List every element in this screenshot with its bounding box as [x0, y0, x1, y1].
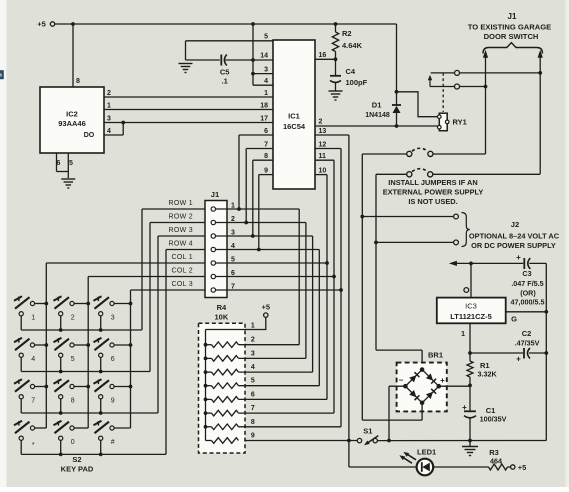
svg-text:8: 8 [251, 419, 255, 426]
svg-text:3.32K: 3.32K [478, 370, 498, 379]
svg-text:16: 16 [319, 52, 327, 59]
svg-text:.1: .1 [222, 77, 228, 86]
svg-text:–: – [399, 376, 404, 385]
svg-text:3: 3 [111, 315, 115, 322]
svg-text:47,000/5.5: 47,000/5.5 [511, 297, 545, 306]
svg-text:5: 5 [264, 34, 268, 41]
svg-text:(OR): (OR) [520, 288, 536, 297]
svg-text:7: 7 [264, 142, 268, 149]
svg-text:+5: +5 [518, 463, 527, 472]
svg-text:6: 6 [251, 391, 255, 398]
svg-text:9: 9 [251, 433, 255, 440]
svg-text:6: 6 [264, 128, 268, 135]
svg-text:EXTERNAL POWER SUPPLY: EXTERNAL POWER SUPPLY [383, 188, 484, 197]
svg-text:1: 1 [251, 323, 255, 330]
svg-text:2: 2 [251, 337, 255, 344]
svg-text:IS NOT USED.: IS NOT USED. [408, 197, 457, 206]
svg-text:4: 4 [251, 364, 255, 371]
svg-text:2: 2 [107, 90, 111, 97]
svg-text:R2: R2 [342, 29, 352, 38]
svg-text:13: 13 [319, 128, 327, 135]
svg-text:ROW 2: ROW 2 [169, 213, 193, 220]
svg-text:*: * [32, 442, 35, 449]
svg-text:3: 3 [107, 116, 111, 123]
svg-text:C4: C4 [346, 67, 356, 76]
svg-text:J1: J1 [211, 190, 220, 199]
svg-text:KEY PAD: KEY PAD [61, 465, 94, 474]
svg-text:+5: +5 [37, 20, 46, 29]
svg-text:93AA46: 93AA46 [58, 119, 86, 128]
svg-text:+: + [516, 355, 521, 364]
svg-text:OR DC POWER SUPPLY: OR DC POWER SUPPLY [471, 241, 556, 250]
svg-text:C3: C3 [522, 269, 531, 278]
svg-text:8: 8 [71, 398, 75, 405]
svg-text:RY1: RY1 [453, 118, 467, 127]
svg-text:10: 10 [319, 168, 327, 175]
svg-text:4.64K: 4.64K [342, 41, 363, 50]
svg-text:9: 9 [264, 168, 268, 175]
svg-text:1: 1 [264, 90, 268, 97]
svg-text:+5: +5 [262, 303, 271, 312]
svg-text:J2: J2 [511, 220, 519, 229]
svg-text:COL 1: COL 1 [172, 254, 193, 261]
svg-text:DOOR SWITCH: DOOR SWITCH [484, 32, 539, 41]
svg-text:ROW 4: ROW 4 [169, 240, 193, 247]
svg-text:3: 3 [264, 67, 268, 74]
svg-text:100/35V: 100/35V [480, 415, 507, 424]
svg-text:2: 2 [319, 119, 323, 126]
svg-text:S2: S2 [72, 455, 81, 464]
svg-text:7: 7 [251, 405, 255, 412]
svg-text:6: 6 [57, 160, 61, 167]
svg-text:14: 14 [260, 53, 268, 60]
svg-text:0: 0 [71, 439, 75, 446]
svg-text:6: 6 [111, 356, 115, 363]
svg-text:3: 3 [251, 350, 255, 357]
svg-text:C2: C2 [522, 329, 532, 338]
svg-text:D1: D1 [372, 101, 382, 110]
svg-text:464: 464 [490, 456, 502, 465]
svg-text:.047 F/5.5: .047 F/5.5 [511, 279, 543, 288]
svg-text:9: 9 [111, 398, 115, 405]
svg-text:5: 5 [251, 378, 255, 385]
svg-text:1: 1 [107, 103, 111, 110]
svg-text:100pF: 100pF [346, 78, 368, 87]
svg-text:+: + [440, 376, 445, 385]
svg-text:#: # [111, 439, 115, 446]
svg-text:4: 4 [31, 356, 35, 363]
svg-text:16C54: 16C54 [283, 122, 306, 131]
svg-text:11: 11 [319, 153, 327, 160]
svg-text:LED1: LED1 [417, 448, 436, 457]
svg-text:IC1: IC1 [288, 112, 300, 121]
svg-text:S1: S1 [363, 427, 372, 436]
svg-text:ROW 1: ROW 1 [169, 200, 193, 207]
svg-text:IC3: IC3 [465, 302, 477, 311]
svg-text:TO EXISTING GARAGE: TO EXISTING GARAGE [468, 23, 551, 32]
svg-text:2: 2 [71, 315, 75, 322]
svg-text:7: 7 [31, 398, 35, 405]
svg-text:10K: 10K [215, 313, 229, 322]
svg-text:5: 5 [71, 356, 75, 363]
svg-text:5: 5 [69, 160, 73, 167]
svg-text:1: 1 [31, 315, 35, 322]
svg-text:18: 18 [260, 103, 268, 110]
svg-text:LT1121CZ-5: LT1121CZ-5 [450, 312, 492, 321]
svg-text:BR1: BR1 [428, 351, 443, 360]
svg-text:OPTIONAL 8–24 VOLT AC: OPTIONAL 8–24 VOLT AC [469, 232, 560, 241]
svg-text:8: 8 [264, 153, 268, 160]
svg-text:1: 1 [461, 331, 465, 338]
svg-text:R4: R4 [217, 303, 227, 312]
svg-text:17: 17 [260, 116, 268, 123]
svg-text:DO: DO [84, 132, 95, 139]
svg-text:J1: J1 [508, 12, 517, 21]
svg-text:+: + [462, 403, 467, 412]
svg-text:G: G [511, 315, 517, 324]
svg-text:.47/35V: .47/35V [515, 339, 540, 348]
svg-text:4: 4 [264, 78, 268, 85]
svg-text:C5: C5 [220, 68, 230, 77]
svg-text:+: + [516, 253, 521, 262]
svg-text:IC2: IC2 [66, 110, 78, 119]
svg-text:8: 8 [76, 78, 80, 85]
svg-text:1N4148: 1N4148 [365, 112, 390, 119]
svg-text:ROW 3: ROW 3 [169, 227, 193, 234]
svg-text:COL 3: COL 3 [172, 281, 193, 288]
svg-text:4: 4 [107, 128, 111, 135]
svg-text:12: 12 [319, 142, 327, 149]
svg-text:INSTALL JUMPERS IF AN: INSTALL JUMPERS IF AN [388, 178, 477, 187]
svg-text:COL 2: COL 2 [172, 267, 193, 274]
